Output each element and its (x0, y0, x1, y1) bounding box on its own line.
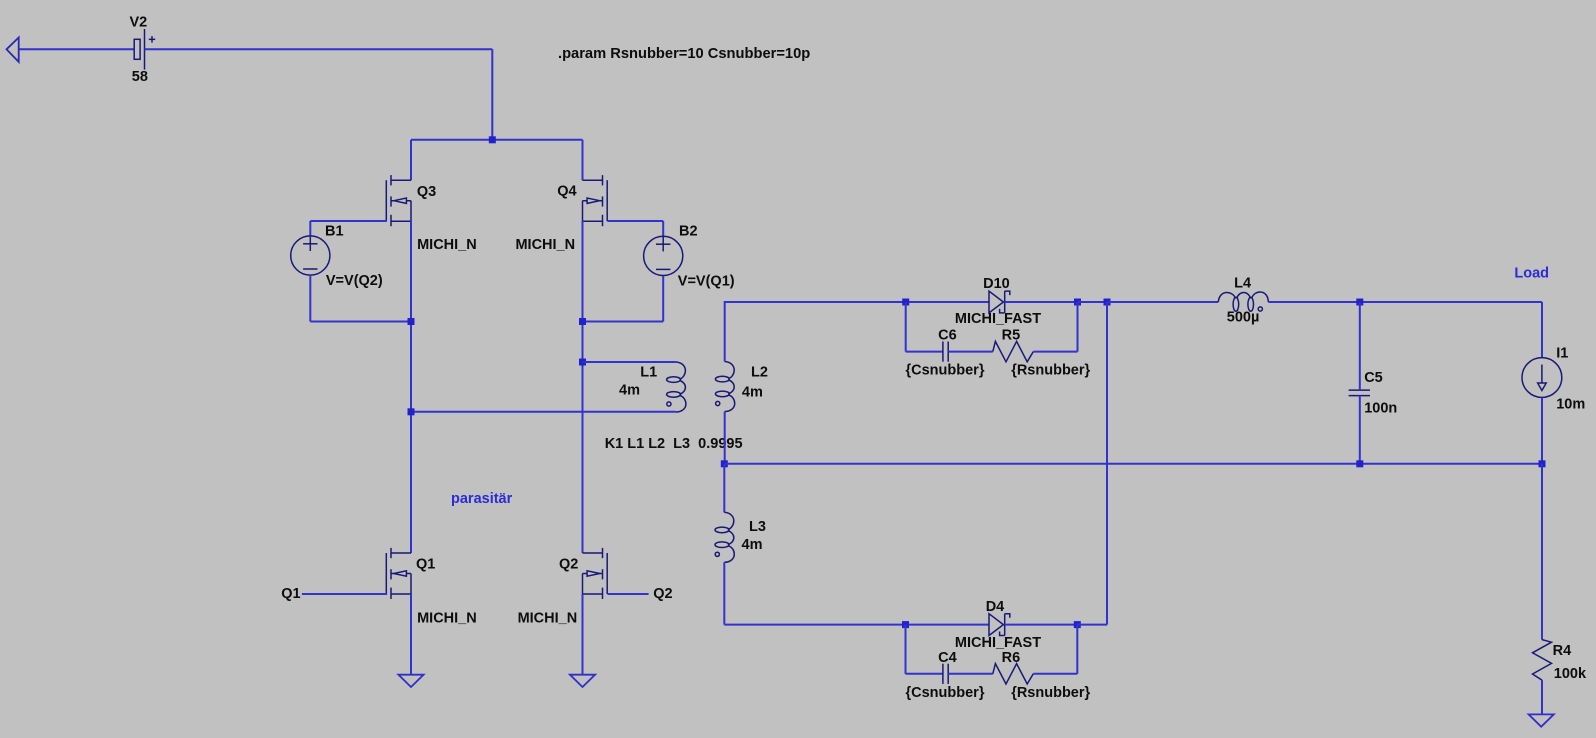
svg-text:C4: C4 (938, 650, 957, 666)
junction (902, 621, 909, 628)
svg-text:R4: R4 (1553, 643, 1572, 659)
junction (1074, 299, 1081, 306)
capacitor C5 (1349, 390, 1370, 396)
svg-text:100n: 100n (1364, 401, 1397, 417)
svg-text:L4: L4 (1234, 276, 1251, 292)
svg-text:L1: L1 (640, 365, 657, 381)
svg-text:C5: C5 (1364, 370, 1383, 386)
bv source B1 (291, 236, 330, 275)
wire (607, 593, 648, 595)
svg-text:MICHI_N: MICHI_N (417, 237, 477, 253)
capacitor C4 (943, 664, 948, 684)
junction (721, 460, 728, 467)
wire (1077, 302, 1079, 352)
wire (662, 221, 664, 236)
wire (1033, 673, 1077, 675)
wire (1359, 396, 1361, 464)
svg-text:4m: 4m (742, 537, 763, 553)
wire (309, 275, 311, 322)
wire (1541, 302, 1543, 358)
svg-text:V=V(Q1): V=V(Q1) (678, 274, 735, 290)
wire (310, 220, 386, 222)
svg-text:58: 58 (132, 69, 148, 85)
svg-text:MICHI_N: MICHI_N (518, 611, 578, 627)
resistor R4 (1533, 640, 1552, 681)
svg-text:.param Rsnubber=10 Csnubber=10: .param Rsnubber=10 Csnubber=10p (558, 46, 810, 62)
wire (724, 463, 1542, 465)
wire (906, 351, 943, 353)
inductor L2 (715, 362, 734, 412)
wire (906, 673, 943, 675)
bv source B2 (644, 236, 683, 275)
junction (408, 408, 415, 415)
wire (582, 140, 584, 180)
junction (1356, 460, 1363, 467)
svg-text:parasitär: parasitär (451, 491, 513, 507)
svg-text:MICHI_N: MICHI_N (417, 611, 477, 627)
wire (948, 673, 993, 675)
wire (723, 464, 725, 513)
svg-text:Q4: Q4 (557, 184, 576, 200)
wire (724, 624, 905, 626)
diode D4 (989, 614, 1010, 636)
junction (579, 318, 586, 325)
svg-text:V2: V2 (130, 15, 148, 31)
wire (905, 625, 907, 674)
svg-text:D10: D10 (983, 276, 1010, 292)
wire (411, 139, 583, 141)
wire (1541, 464, 1543, 640)
ground (398, 675, 423, 687)
wire (1077, 624, 1107, 626)
svg-text:B1: B1 (325, 224, 344, 240)
transistor Q4 (583, 175, 608, 226)
svg-text:100k: 100k (1554, 666, 1587, 682)
svg-text:MICHI_FAST: MICHI_FAST (955, 311, 1041, 327)
wire (302, 593, 387, 595)
wire (607, 220, 663, 222)
wire (1078, 301, 1108, 303)
ground (1529, 714, 1554, 726)
wire (309, 221, 311, 236)
junction (408, 318, 415, 325)
svg-text:{Csnubber}: {Csnubber} (906, 363, 985, 379)
diode D10 (989, 291, 1010, 313)
svg-text:Q2: Q2 (559, 557, 578, 573)
junction (1074, 621, 1081, 628)
node arrow (left port) (7, 38, 19, 62)
svg-text:L2: L2 (751, 365, 768, 381)
transistor Q2 (583, 548, 608, 599)
svg-text:10m: 10m (1556, 397, 1585, 413)
svg-text:Q2: Q2 (653, 586, 672, 602)
svg-text:Q3: Q3 (417, 184, 436, 200)
svg-text:4m: 4m (742, 385, 763, 401)
svg-text:K1 L1 L2 L3 0.9995: K1 L1 L2 L3 0.9995 (605, 436, 743, 452)
wire (583, 321, 664, 323)
wire (410, 221, 412, 553)
inductor L4 (1218, 292, 1268, 311)
svg-text:Q1: Q1 (281, 586, 300, 602)
junction (579, 359, 586, 366)
junction (902, 299, 909, 306)
resistor R6 (993, 664, 1034, 684)
resistor R5 (993, 341, 1034, 361)
svg-text:D4: D4 (986, 599, 1005, 615)
wire (583, 361, 676, 363)
voltage source V2 (134, 29, 155, 70)
wire (906, 624, 990, 626)
junction (1356, 299, 1363, 306)
wire (1541, 398, 1543, 464)
junction (489, 136, 496, 143)
wire (582, 221, 584, 553)
wire (411, 411, 676, 413)
svg-text:B2: B2 (679, 224, 698, 240)
svg-text:L3: L3 (749, 519, 766, 535)
wire (723, 562, 725, 624)
transistor Q3 (386, 175, 411, 226)
inductor L1 (667, 362, 686, 412)
svg-text:{Rsnubber}: {Rsnubber} (1011, 685, 1090, 701)
wire (1541, 680, 1543, 714)
ground (570, 675, 595, 687)
svg-text:{Rsnubber}: {Rsnubber} (1011, 363, 1090, 379)
wire (948, 351, 993, 353)
wire (1005, 624, 1078, 626)
svg-text:R6: R6 (1002, 650, 1021, 666)
wire (410, 140, 412, 180)
wire (1005, 301, 1078, 303)
wire (19, 48, 135, 50)
transistor Q1 (386, 548, 411, 599)
wire (1107, 301, 1218, 303)
svg-text:R5: R5 (1002, 328, 1021, 344)
wire (905, 302, 907, 352)
svg-text:{Csnubber}: {Csnubber} (906, 685, 985, 701)
wire (410, 594, 412, 675)
wire (582, 594, 584, 675)
svg-text:Load: Load (1514, 266, 1549, 282)
svg-text:500µ: 500µ (1227, 310, 1260, 326)
svg-text:MICHI_N: MICHI_N (515, 237, 575, 253)
svg-text:4m: 4m (619, 383, 640, 399)
wire (1076, 625, 1078, 674)
current source I1 (1522, 358, 1562, 398)
wire (1106, 302, 1108, 625)
wire (1033, 351, 1077, 353)
wire (491, 49, 493, 140)
wire (1359, 302, 1361, 390)
svg-text:Q1: Q1 (416, 557, 435, 573)
wire (725, 302, 906, 362)
wire (906, 301, 989, 303)
wire (724, 412, 726, 464)
junction (1104, 299, 1111, 306)
svg-text:V=V(Q2): V=V(Q2) (326, 273, 383, 289)
capacitor C6 (943, 342, 948, 362)
wire (662, 276, 664, 322)
wire (310, 321, 411, 323)
wire (1268, 301, 1542, 303)
svg-text:I1: I1 (1556, 346, 1568, 362)
wire (145, 48, 493, 50)
inductor L3 (715, 512, 734, 562)
junction (1539, 460, 1546, 467)
svg-text:MICHI_FAST: MICHI_FAST (955, 635, 1041, 651)
svg-text:C6: C6 (938, 328, 957, 344)
